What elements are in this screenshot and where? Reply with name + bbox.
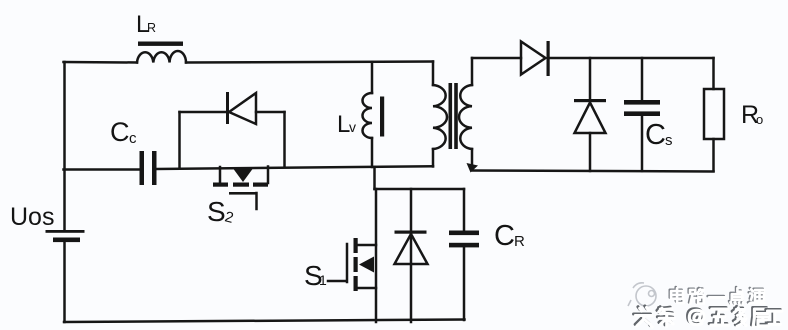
transistor S2 (213, 167, 268, 210)
capacitor CR (449, 189, 479, 320)
svg-text:Uos: Uos (10, 203, 54, 231)
S1 source horizontal (357, 287, 376, 290)
label Cs (645, 119, 673, 151)
transformer secondary lead bottom (471, 149, 474, 168)
svg-text:R: R (147, 21, 156, 35)
svg-text:c: c (129, 130, 137, 147)
diode D1 antiparallel (395, 189, 428, 322)
inductor Lv lead bottom (371, 138, 374, 167)
wire left vertical lower (63, 242, 66, 322)
wire output bottom rail (472, 171, 714, 172)
capacitor Cc (140, 151, 157, 185)
label CR (494, 220, 525, 252)
svg-text:C: C (645, 119, 666, 151)
transformer core bars (449, 83, 458, 149)
S2 channel bars (213, 183, 268, 187)
transformer primary lead top (432, 62, 435, 86)
wire output top rail left (472, 57, 521, 60)
transformer primary winding (433, 85, 447, 149)
transformer secondary lead top (471, 58, 474, 85)
wire jog down to S1 net (373, 167, 376, 189)
S1 gate lead (328, 280, 346, 283)
S1 channel bars (354, 238, 358, 291)
S1 body arrow (359, 257, 374, 273)
wire output top rail right (550, 57, 714, 60)
svg-text:s: s (665, 132, 673, 149)
S2 gate line (229, 192, 257, 195)
inductor LR (137, 51, 186, 63)
S1 gate bar (346, 244, 349, 282)
wire top rail left of LR (64, 61, 138, 64)
core bar of LR (138, 42, 183, 46)
svg-text:C: C (494, 220, 515, 252)
battery Uos plates (46, 230, 85, 242)
transistor S1 (328, 189, 376, 322)
wire middle rail right of Cc (157, 166, 434, 169)
S2 gate lead down (255, 193, 258, 209)
label Cc (110, 117, 137, 147)
wire bottom rail (64, 320, 465, 323)
S2 right stub (267, 167, 270, 184)
svg-text:v: v (349, 119, 356, 135)
diode D clamp (226, 92, 256, 124)
watermark logo (628, 283, 656, 306)
S1 drain horizontal (357, 244, 376, 247)
wire middle rail left of Cc (64, 168, 141, 171)
S2 body arrow (234, 169, 253, 182)
label RL (741, 101, 763, 129)
svg-text:C: C (110, 117, 130, 147)
watermark text line 2 (634, 306, 651, 326)
diode D2 freewheel (574, 58, 606, 171)
watermark text line 1 (670, 287, 683, 302)
S2 left stub (219, 167, 222, 183)
transformer secondary winding (459, 85, 472, 149)
S1 drain/source vertical (375, 189, 378, 322)
capacitor Cs (624, 58, 660, 171)
core bar of Lv (380, 97, 384, 137)
wire S1 net horizontal (375, 188, 465, 191)
label S2 (207, 196, 235, 227)
wire clamp box right (283, 112, 286, 167)
secondary lead arrowhead (467, 163, 479, 173)
svg-text:R: R (514, 233, 525, 250)
svg-text:1: 1 (319, 272, 327, 288)
transformer primary lead bottom (432, 149, 435, 167)
wire top rail right of LR (186, 62, 433, 63)
label S1 (304, 260, 327, 291)
label Lv (337, 111, 356, 138)
wire left vertical upper (63, 62, 66, 231)
wire clamp box top right (256, 111, 285, 114)
inductor Lv lead top (371, 62, 374, 93)
inductor Lv (363, 93, 373, 138)
wire clamp box top left (180, 111, 227, 114)
label LR (136, 11, 156, 38)
wire clamp box left (178, 112, 181, 168)
resistor RL (704, 58, 724, 171)
svg-text:o: o (756, 112, 763, 127)
diode D output rectifier (521, 41, 550, 76)
